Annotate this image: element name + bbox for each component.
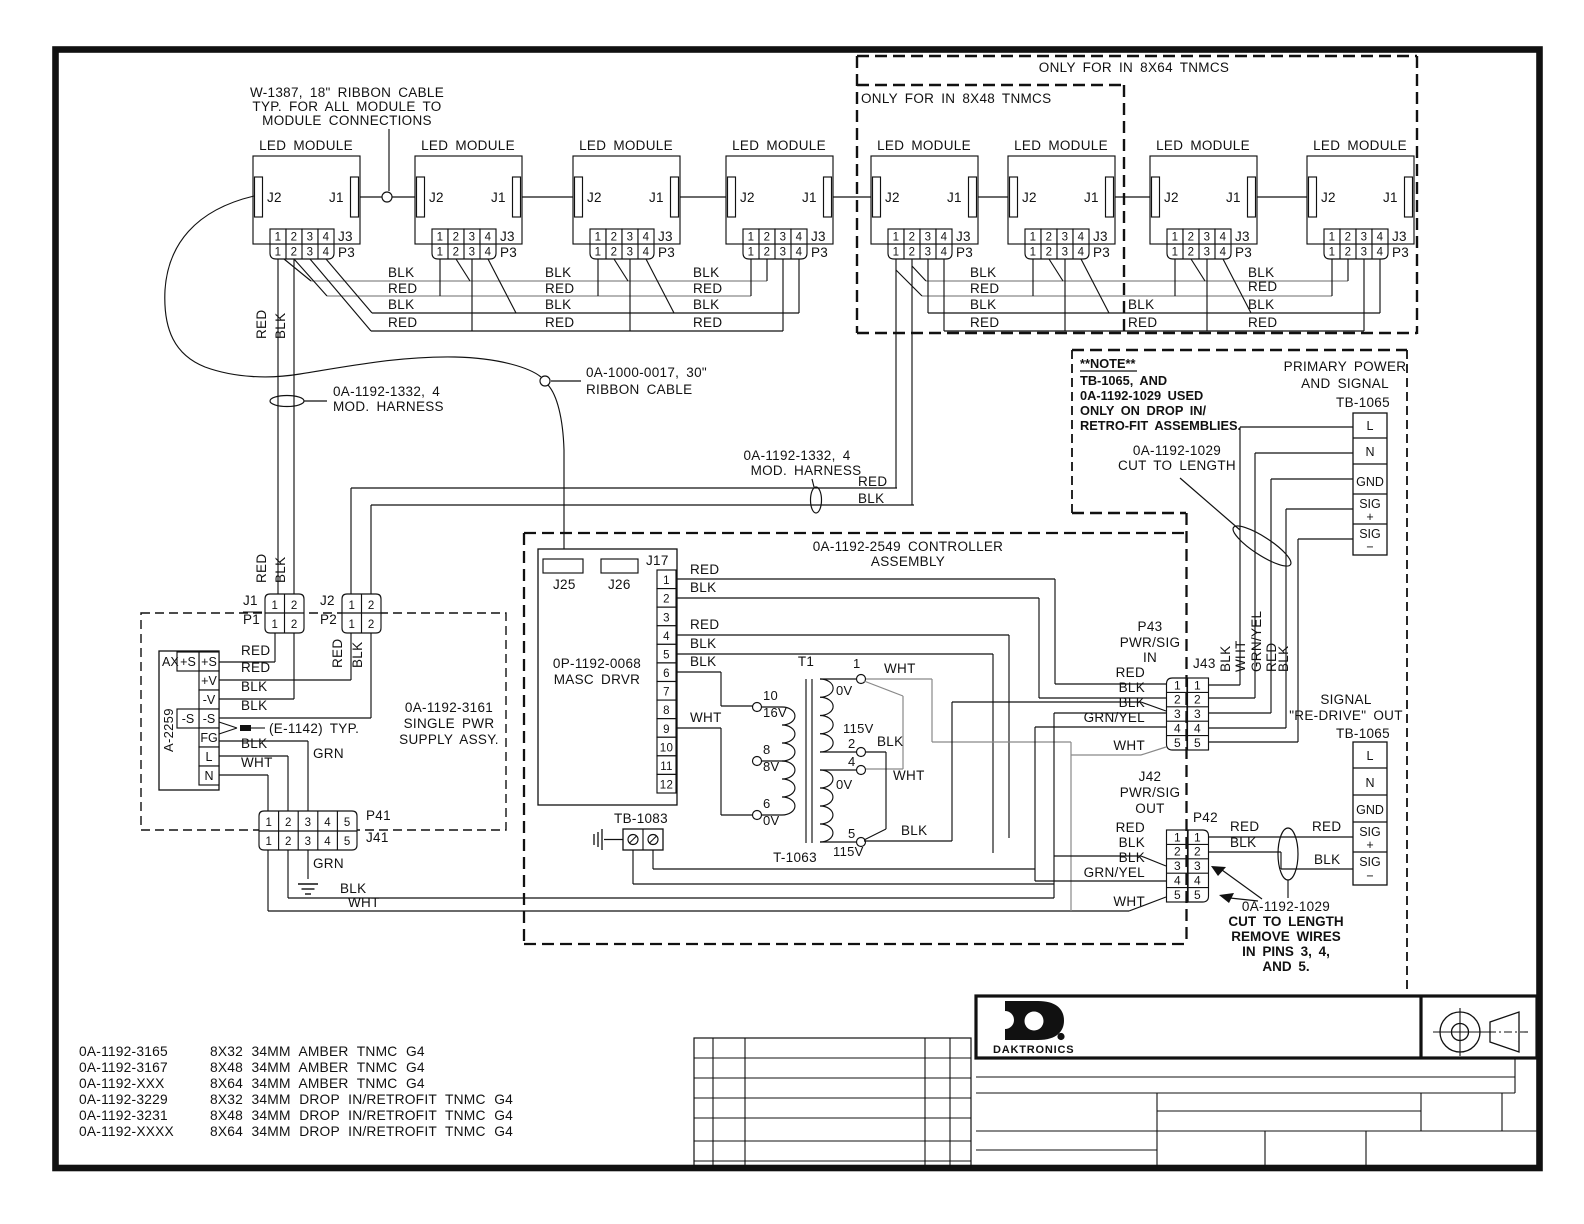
svg-text:BLK: BLK: [273, 313, 288, 339]
svg-text:GRN: GRN: [313, 746, 344, 761]
svg-text:J1: J1: [1383, 190, 1398, 205]
svg-text:5: 5: [1194, 888, 1201, 902]
svg-text:IN PINS 3, 4,: IN PINS 3, 4,: [1242, 944, 1330, 959]
svg-text:3: 3: [1174, 707, 1181, 721]
svg-text:TB-1065: TB-1065: [1336, 726, 1390, 741]
svg-text:RED: RED: [388, 281, 417, 296]
svg-text:BLK: BLK: [545, 297, 571, 312]
svg-text:RED: RED: [1116, 820, 1145, 835]
svg-text:7: 7: [663, 687, 670, 699]
svg-text:0A-1000-0017, 30": 0A-1000-0017, 30": [586, 365, 707, 380]
svg-text:J42: J42: [1139, 769, 1162, 784]
svg-text:WHT: WHT: [241, 755, 273, 770]
svg-text:4: 4: [941, 247, 948, 259]
svg-text:+V: +V: [201, 674, 217, 688]
svg-text:BLK: BLK: [1218, 646, 1233, 672]
svg-text:+S: +S: [201, 655, 217, 669]
svg-text:3: 3: [305, 817, 312, 829]
svg-text:0V: 0V: [836, 683, 853, 698]
svg-text:LED MODULE: LED MODULE: [732, 138, 826, 153]
svg-text:8V: 8V: [763, 759, 780, 774]
svg-text:1: 1: [437, 247, 444, 259]
svg-text:SIG: SIG: [1359, 825, 1381, 839]
svg-text:2: 2: [1046, 232, 1053, 244]
svg-text:BLK: BLK: [388, 297, 414, 312]
svg-text:4: 4: [848, 754, 856, 769]
svg-text:J2: J2: [740, 190, 755, 205]
svg-text:-S: -S: [203, 712, 216, 726]
svg-text:3: 3: [1204, 247, 1211, 259]
svg-text:WHT: WHT: [1113, 738, 1145, 753]
svg-text:LED MODULE: LED MODULE: [1014, 138, 1108, 153]
svg-text:RED: RED: [690, 617, 719, 632]
svg-text:RED: RED: [1248, 315, 1277, 330]
svg-text:LED MODULE: LED MODULE: [259, 138, 353, 153]
svg-text:MOD. HARNESS: MOD. HARNESS: [751, 463, 862, 478]
svg-text:RED: RED: [1230, 819, 1259, 834]
svg-text:PWR/SIG: PWR/SIG: [1120, 635, 1181, 650]
svg-text:LED MODULE: LED MODULE: [877, 138, 971, 153]
svg-text:8: 8: [663, 705, 670, 717]
svg-text:0A-1192-XXX: 0A-1192-XXX: [79, 1076, 165, 1091]
svg-text:P3: P3: [956, 245, 973, 260]
svg-text:0A-1192-XXXX: 0A-1192-XXXX: [79, 1124, 174, 1139]
svg-text:RIBBON CABLE: RIBBON CABLE: [586, 382, 692, 397]
svg-text:RED: RED: [1312, 819, 1341, 834]
svg-text:115V: 115V: [833, 844, 864, 859]
svg-text:8: 8: [763, 742, 771, 757]
svg-text:1: 1: [748, 247, 755, 259]
svg-text:2: 2: [453, 232, 460, 244]
svg-text:5: 5: [1194, 736, 1201, 750]
svg-text:BLK: BLK: [340, 881, 366, 896]
svg-text:WHT: WHT: [348, 895, 380, 910]
svg-text:J3: J3: [338, 229, 353, 244]
svg-text:P3: P3: [811, 245, 828, 260]
svg-text:0A-1192-3161: 0A-1192-3161: [405, 700, 493, 715]
svg-text:2: 2: [1046, 247, 1053, 259]
svg-text:1: 1: [265, 836, 272, 848]
svg-text:WHT: WHT: [1233, 640, 1248, 672]
svg-text:115V: 115V: [843, 721, 874, 736]
svg-text:6: 6: [663, 668, 670, 680]
svg-text:BLK: BLK: [690, 654, 716, 669]
svg-text:16V: 16V: [763, 705, 787, 720]
svg-text:4: 4: [323, 247, 330, 259]
svg-text:J1: J1: [243, 593, 258, 608]
svg-text:N: N: [1365, 776, 1374, 790]
svg-text:0V: 0V: [836, 777, 853, 792]
svg-text:J2: J2: [320, 593, 335, 608]
svg-text:3: 3: [925, 232, 932, 244]
svg-text:1: 1: [595, 232, 602, 244]
svg-text:GRN: GRN: [313, 856, 344, 871]
svg-text:RED: RED: [545, 281, 574, 296]
svg-text:BLK: BLK: [1119, 850, 1145, 865]
svg-text:0P-1192-0068: 0P-1192-0068: [553, 656, 641, 671]
svg-text:12: 12: [660, 780, 673, 792]
svg-text:ONLY ON DROP IN/: ONLY ON DROP IN/: [1080, 403, 1207, 418]
svg-text:J2: J2: [587, 190, 602, 205]
svg-text:GRN/YEL: GRN/YEL: [1084, 710, 1146, 725]
svg-text:4: 4: [1174, 722, 1181, 736]
svg-text:2: 2: [764, 247, 771, 259]
svg-text:RED: RED: [1128, 315, 1157, 330]
svg-text:P43: P43: [1138, 619, 1163, 634]
svg-text:BLK: BLK: [273, 557, 288, 583]
svg-text:RED: RED: [254, 310, 269, 339]
svg-text:2: 2: [909, 232, 916, 244]
svg-text:2: 2: [1188, 247, 1195, 259]
svg-text:4: 4: [796, 247, 803, 259]
svg-text:N: N: [1365, 445, 1374, 459]
svg-text:11: 11: [660, 761, 673, 773]
svg-text:BLK: BLK: [1119, 835, 1145, 850]
svg-text:1: 1: [893, 232, 900, 244]
svg-text:J1: J1: [491, 190, 506, 205]
svg-text:RED: RED: [1248, 279, 1277, 294]
svg-text:J1: J1: [1226, 190, 1241, 205]
svg-text:3: 3: [307, 247, 314, 259]
svg-text:RED: RED: [970, 315, 999, 330]
svg-text:BLK: BLK: [1276, 646, 1291, 672]
svg-text:4: 4: [1194, 722, 1201, 736]
svg-text:BLK: BLK: [693, 265, 719, 280]
svg-text:3: 3: [1361, 247, 1368, 259]
svg-text:5: 5: [344, 836, 351, 848]
svg-text:J3: J3: [1392, 229, 1407, 244]
svg-text:4: 4: [324, 817, 331, 829]
svg-text:5: 5: [663, 649, 670, 661]
svg-text:MODULE CONNECTIONS: MODULE CONNECTIONS: [262, 113, 432, 128]
svg-text:J3: J3: [1093, 229, 1108, 244]
svg-text:2: 2: [1188, 232, 1195, 244]
svg-text:P42: P42: [1193, 810, 1218, 825]
svg-text:1: 1: [1030, 247, 1037, 259]
svg-text:0A-1192-1029: 0A-1192-1029: [1133, 443, 1221, 458]
svg-text:A-2259: A-2259: [161, 708, 176, 752]
svg-text:SIG: SIG: [1359, 527, 1381, 541]
svg-text:4: 4: [1377, 247, 1384, 259]
svg-text:BLK: BLK: [1119, 680, 1145, 695]
svg-text:8X64 34MM DROP IN/RETROFIT TNM: 8X64 34MM DROP IN/RETROFIT TNMC G4: [210, 1124, 513, 1139]
svg-text:2: 2: [291, 247, 298, 259]
svg-text:2: 2: [1345, 247, 1352, 259]
svg-text:2: 2: [1194, 845, 1201, 859]
svg-text:REMOVE WIRES: REMOVE WIRES: [1231, 929, 1341, 944]
svg-text:1: 1: [275, 247, 282, 259]
svg-text:LED MODULE: LED MODULE: [1313, 138, 1407, 153]
svg-text:+S: +S: [180, 655, 196, 669]
svg-text:BLK: BLK: [545, 265, 571, 280]
svg-text:BLK: BLK: [858, 491, 884, 506]
svg-text:2: 2: [611, 232, 618, 244]
svg-text:4: 4: [643, 232, 650, 244]
svg-text:J3: J3: [811, 229, 826, 244]
svg-text:J2: J2: [1321, 190, 1336, 205]
svg-text:BLK: BLK: [1119, 695, 1145, 710]
svg-text:IN: IN: [1143, 650, 1157, 665]
svg-text:P1: P1: [243, 612, 260, 627]
svg-text:4: 4: [1174, 874, 1181, 888]
svg-text:4: 4: [643, 247, 650, 259]
svg-text:RED: RED: [693, 281, 722, 296]
svg-text:3: 3: [780, 232, 787, 244]
svg-text:4: 4: [323, 232, 330, 244]
svg-text:BLK: BLK: [1314, 852, 1340, 867]
svg-text:MOD. HARNESS: MOD. HARNESS: [333, 399, 444, 414]
svg-text:3: 3: [627, 232, 634, 244]
svg-text:3: 3: [1361, 232, 1368, 244]
svg-text:0A-1192-1332, 4: 0A-1192-1332, 4: [333, 384, 440, 399]
svg-text:1: 1: [1194, 830, 1201, 844]
svg-text:N: N: [204, 769, 213, 783]
svg-text:GND: GND: [1356, 803, 1384, 817]
svg-text:RED: RED: [330, 639, 345, 668]
svg-text:+: +: [1366, 838, 1373, 852]
svg-text:P3: P3: [338, 245, 355, 260]
svg-text:AX: AX: [162, 655, 179, 669]
svg-text:3: 3: [469, 247, 476, 259]
svg-text:SIGNAL: SIGNAL: [1320, 692, 1372, 707]
svg-text:GRN/YEL: GRN/YEL: [1249, 610, 1264, 672]
svg-text:GND: GND: [1356, 475, 1384, 489]
svg-text:J41: J41: [366, 830, 389, 845]
svg-text:0V: 0V: [763, 813, 780, 828]
svg-text:10: 10: [763, 688, 778, 703]
svg-text:BLK: BLK: [690, 636, 716, 651]
svg-text:2: 2: [1174, 693, 1181, 707]
svg-text:4: 4: [1220, 232, 1227, 244]
svg-text:J3: J3: [1235, 229, 1250, 244]
svg-text:2: 2: [1194, 693, 1201, 707]
svg-text:2: 2: [291, 232, 298, 244]
svg-text:RED: RED: [690, 562, 719, 577]
svg-text:BLK: BLK: [1128, 297, 1154, 312]
svg-text:0A-1192-1029 USED: 0A-1192-1029 USED: [1080, 388, 1203, 403]
svg-text:5: 5: [848, 826, 856, 841]
svg-text:0A-1192-1332, 4: 0A-1192-1332, 4: [743, 448, 850, 463]
svg-text:5: 5: [344, 817, 351, 829]
svg-text:1: 1: [663, 575, 670, 587]
svg-text:RED: RED: [388, 315, 417, 330]
svg-text:J26: J26: [608, 577, 631, 592]
svg-text:TB-1083: TB-1083: [614, 811, 668, 826]
svg-text:W-1387, 18" RIBBON CABLE: W-1387, 18" RIBBON CABLE: [250, 85, 444, 100]
svg-text:4: 4: [1078, 247, 1085, 259]
svg-text:SUPPLY ASSY.: SUPPLY ASSY.: [399, 732, 499, 747]
svg-text:J3: J3: [956, 229, 971, 244]
svg-text:1: 1: [348, 619, 355, 631]
svg-text:L: L: [206, 750, 213, 764]
svg-text:FG: FG: [200, 731, 217, 745]
svg-text:L: L: [1367, 419, 1374, 433]
svg-text:2: 2: [848, 736, 856, 751]
svg-text:1: 1: [893, 247, 900, 259]
svg-text:LED MODULE: LED MODULE: [579, 138, 673, 153]
svg-text:RED: RED: [241, 643, 270, 658]
svg-text:J2: J2: [267, 190, 282, 205]
svg-text:1: 1: [748, 232, 755, 244]
svg-text:RED: RED: [545, 315, 574, 330]
svg-text:AND SIGNAL: AND SIGNAL: [1301, 376, 1389, 391]
svg-text:BLK: BLK: [388, 265, 414, 280]
svg-text:1: 1: [1329, 232, 1336, 244]
svg-text:TYP. FOR ALL MODULE TO: TYP. FOR ALL MODULE TO: [252, 99, 441, 114]
svg-text:J1: J1: [947, 190, 962, 205]
svg-text:BLK: BLK: [1248, 297, 1274, 312]
svg-text:2: 2: [368, 619, 375, 631]
svg-text:1: 1: [271, 619, 278, 631]
svg-text:4: 4: [1194, 874, 1201, 888]
svg-text:1: 1: [275, 232, 282, 244]
svg-text:SIG: SIG: [1359, 497, 1381, 511]
svg-text:1: 1: [1172, 232, 1179, 244]
svg-text:BLK: BLK: [241, 736, 267, 751]
svg-text:SINGLE PWR: SINGLE PWR: [404, 716, 495, 731]
svg-text:J3: J3: [658, 229, 673, 244]
svg-text:P3: P3: [1093, 245, 1110, 260]
svg-text:(E-1142) TYP.: (E-1142) TYP.: [269, 721, 359, 736]
svg-text:1: 1: [1030, 232, 1037, 244]
svg-text:3: 3: [1062, 247, 1069, 259]
svg-text:6: 6: [763, 796, 771, 811]
svg-text:PRIMARY POWER: PRIMARY POWER: [1284, 359, 1407, 374]
svg-text:BLK: BLK: [241, 698, 267, 713]
svg-text:3: 3: [663, 612, 670, 624]
svg-text:2: 2: [291, 619, 298, 631]
svg-text:8X64 34MM AMBER TNMC G4: 8X64 34MM AMBER TNMC G4: [210, 1076, 425, 1091]
svg-text:ONLY FOR IN 8X64 TNMCS: ONLY FOR IN 8X64 TNMCS: [1039, 60, 1229, 75]
svg-text:ASSEMBLY: ASSEMBLY: [871, 554, 945, 569]
svg-text:1: 1: [1329, 247, 1336, 259]
svg-text:1: 1: [1174, 678, 1181, 692]
svg-text:3: 3: [925, 247, 932, 259]
svg-text:1: 1: [348, 600, 355, 612]
svg-text:8X32 34MM AMBER TNMC G4: 8X32 34MM AMBER TNMC G4: [210, 1044, 425, 1059]
svg-text:BLK: BLK: [901, 823, 927, 838]
svg-text:L: L: [1367, 749, 1374, 763]
svg-text:AND 5.: AND 5.: [1262, 959, 1309, 974]
svg-text:OUT: OUT: [1135, 801, 1164, 816]
svg-text:0A-1192-3229: 0A-1192-3229: [79, 1092, 168, 1107]
svg-text:3: 3: [1204, 232, 1211, 244]
svg-text:**NOTE**: **NOTE**: [1080, 356, 1135, 371]
svg-text:1: 1: [1194, 678, 1201, 692]
svg-text:SIG: SIG: [1359, 855, 1381, 869]
svg-text:BLK: BLK: [241, 679, 267, 694]
svg-text:P3: P3: [1235, 245, 1252, 260]
svg-text:4: 4: [941, 232, 948, 244]
svg-text:1: 1: [437, 232, 444, 244]
svg-text:J2: J2: [429, 190, 444, 205]
svg-text:3: 3: [307, 232, 314, 244]
svg-text:WHT: WHT: [884, 661, 916, 676]
svg-text:3: 3: [305, 836, 312, 848]
svg-text:P3: P3: [658, 245, 675, 260]
svg-text:10: 10: [660, 742, 673, 754]
svg-text:+: +: [1366, 510, 1373, 524]
svg-text:-S: -S: [182, 712, 195, 726]
svg-text:CUT TO LENGTH: CUT TO LENGTH: [1228, 914, 1343, 929]
svg-text:4: 4: [324, 836, 331, 848]
svg-text:1: 1: [265, 817, 272, 829]
svg-text:2: 2: [1345, 232, 1352, 244]
svg-text:P3: P3: [500, 245, 517, 260]
svg-text:T-1063: T-1063: [773, 850, 817, 865]
svg-text:TB-1065, AND: TB-1065, AND: [1080, 373, 1167, 388]
svg-text:1: 1: [1174, 830, 1181, 844]
svg-text:3: 3: [1174, 859, 1181, 873]
svg-text:9: 9: [663, 724, 670, 736]
svg-text:3: 3: [1062, 232, 1069, 244]
svg-text:J1: J1: [329, 190, 344, 205]
svg-text:RED: RED: [1116, 665, 1145, 680]
svg-text:0A-1192-3165: 0A-1192-3165: [79, 1044, 168, 1059]
svg-text:4: 4: [1220, 247, 1227, 259]
svg-text:2: 2: [285, 836, 292, 848]
svg-text:3: 3: [627, 247, 634, 259]
svg-text:J1: J1: [1084, 190, 1099, 205]
svg-text:P3: P3: [1392, 245, 1409, 260]
svg-text:4: 4: [485, 232, 492, 244]
svg-text:4: 4: [1078, 232, 1085, 244]
svg-text:BLK: BLK: [690, 580, 716, 595]
svg-text:2: 2: [1174, 845, 1181, 859]
svg-text:DAKTRONICS: DAKTRONICS: [993, 1044, 1074, 1056]
svg-text:RED: RED: [254, 554, 269, 583]
svg-text:RED: RED: [858, 474, 887, 489]
svg-text:RED: RED: [970, 281, 999, 296]
svg-text:BLK: BLK: [970, 265, 996, 280]
svg-text:"RE-DRIVE" OUT: "RE-DRIVE" OUT: [1289, 708, 1403, 723]
svg-text:2: 2: [611, 247, 618, 259]
svg-text:−: −: [1366, 869, 1373, 883]
svg-text:RED: RED: [693, 315, 722, 330]
svg-text:1: 1: [853, 656, 861, 671]
svg-text:RED: RED: [241, 660, 270, 675]
svg-text:2: 2: [453, 247, 460, 259]
svg-text:J1: J1: [649, 190, 664, 205]
svg-text:BLK: BLK: [350, 642, 365, 668]
svg-text:2: 2: [368, 600, 375, 612]
svg-text:0A-1192-3231: 0A-1192-3231: [79, 1108, 168, 1123]
svg-text:MASC DRVR: MASC DRVR: [554, 672, 640, 687]
svg-text:4: 4: [663, 631, 670, 643]
svg-text:BLK: BLK: [1248, 265, 1274, 280]
svg-text:0A-1192-3167: 0A-1192-3167: [79, 1060, 168, 1075]
svg-text:J2: J2: [1164, 190, 1179, 205]
svg-text:LED MODULE: LED MODULE: [421, 138, 515, 153]
svg-text:WHT: WHT: [690, 710, 722, 725]
svg-text:WHT: WHT: [1113, 894, 1145, 909]
svg-text:J43: J43: [1193, 656, 1216, 671]
svg-text:5: 5: [1174, 888, 1181, 902]
svg-text:J3: J3: [500, 229, 515, 244]
svg-text:J2: J2: [885, 190, 900, 205]
svg-text:4: 4: [796, 232, 803, 244]
svg-text:8X48 34MM AMBER TNMC G4: 8X48 34MM AMBER TNMC G4: [210, 1060, 425, 1075]
svg-text:2: 2: [291, 600, 298, 612]
svg-text:1: 1: [595, 247, 602, 259]
svg-text:4: 4: [485, 247, 492, 259]
svg-text:2: 2: [663, 594, 670, 606]
svg-text:3: 3: [780, 247, 787, 259]
svg-text:WHT: WHT: [893, 768, 925, 783]
svg-text:2: 2: [909, 247, 916, 259]
svg-text:BLK: BLK: [877, 734, 903, 749]
svg-text:P2: P2: [320, 612, 337, 627]
